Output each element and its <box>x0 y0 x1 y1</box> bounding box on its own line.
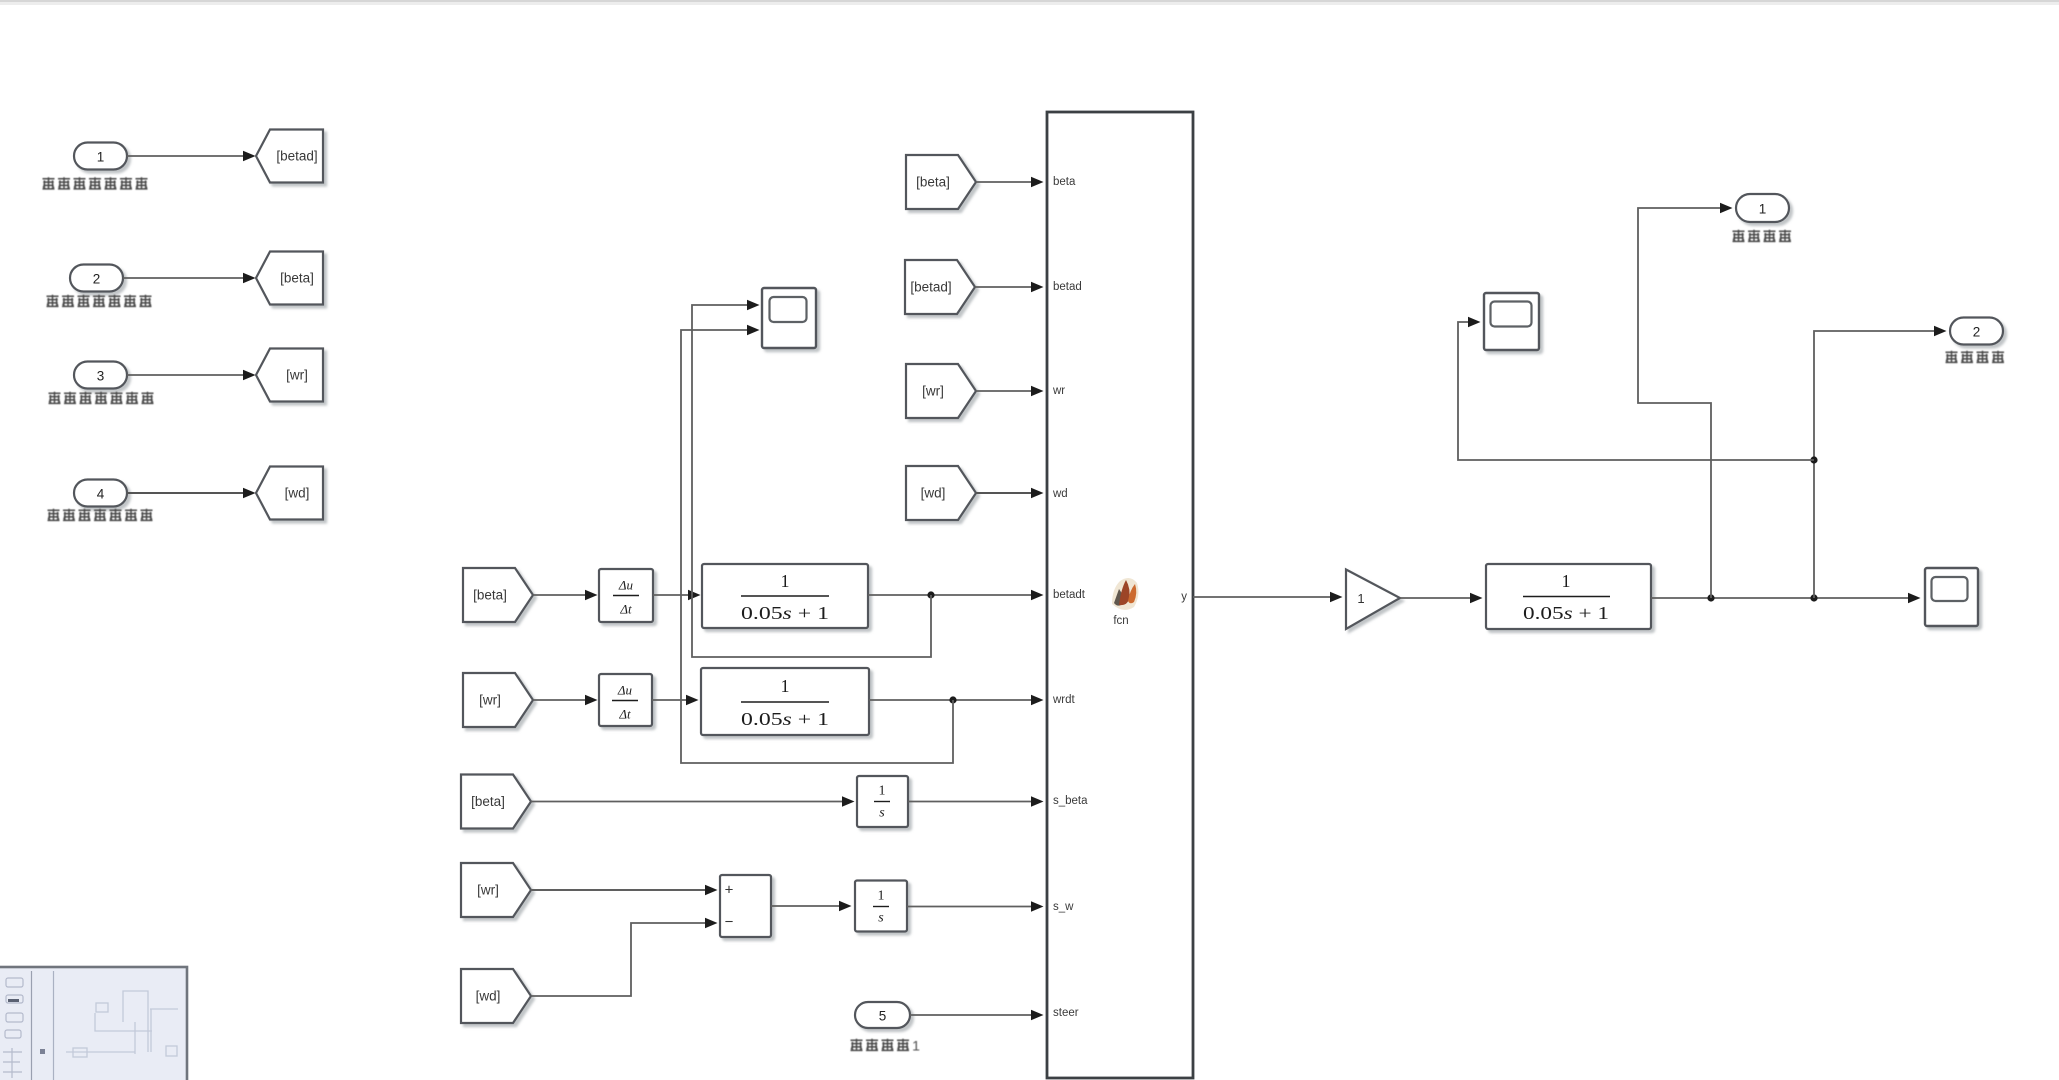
from [betad] to fcn betad <box>905 260 975 314</box>
from [wr] to sum <box>461 863 531 917</box>
wire gain to tf3 <box>1400 593 1483 603</box>
wire tf2 junction to scope input2 <box>681 325 953 763</box>
goto [wr] <box>256 349 323 402</box>
svg-text:Δu: Δu <box>618 578 634 593</box>
outport 2 <box>1950 318 2003 345</box>
goto [betad] <box>256 130 323 183</box>
scope middle (2 inputs) <box>762 288 816 348</box>
wire junction B to outport 2 <box>1814 326 1947 598</box>
inport 3 <box>74 362 127 389</box>
wire integrator1 to fcn s_beta <box>908 796 1044 806</box>
svg-text:2: 2 <box>93 272 101 287</box>
wire in4 to goto wd <box>127 488 256 498</box>
derivative block 1 <box>599 569 653 622</box>
from [wr] chain wrdt <box>463 673 533 727</box>
wire integrator2 to fcn s_w <box>907 901 1044 911</box>
svg-text:[wd]: [wd] <box>921 486 946 501</box>
wire junction to scope2 <box>1458 317 1814 460</box>
from [wr] to fcn wr <box>906 364 976 418</box>
svg-text:+: + <box>725 882 734 899</box>
svg-text:[betad]: [betad] <box>276 149 317 164</box>
svg-text:fcn: fcn <box>1113 615 1128 627</box>
from [wd] to fcn wd <box>906 466 976 520</box>
label 理想横摆角速度 <box>48 509 153 521</box>
wire in1 to goto betad <box>127 151 256 161</box>
svg-text:1: 1 <box>781 676 790 696</box>
label 前轮转角 <box>1733 230 1792 242</box>
svg-text:[wd]: [wd] <box>285 486 310 501</box>
wire from-wd3 to fcn <box>976 488 1044 498</box>
svg-text:y: y <box>1181 591 1187 603</box>
wire from-wr3 to fcn <box>976 386 1044 396</box>
junction on tf2 output <box>949 696 956 703</box>
wire derivative2 to tf2 <box>652 695 699 705</box>
svg-text:[beta]: [beta] <box>471 794 505 809</box>
inport 4 <box>74 480 127 507</box>
wire tf1 to fcn betadt <box>868 590 1044 600</box>
sum block <box>720 875 771 937</box>
junction tf3 output A <box>1707 594 1714 601</box>
MATLAB logo <box>1112 578 1138 610</box>
svg-text:s_beta: s_beta <box>1053 795 1088 807</box>
svg-text:[wr]: [wr] <box>479 693 501 708</box>
wire in3 to goto wr <box>127 370 256 380</box>
wire sum to integrator2 <box>771 901 852 911</box>
svg-text:[beta]: [beta] <box>916 175 950 190</box>
outport 1 <box>1736 194 1789 222</box>
svg-text:1: 1 <box>912 1038 920 1054</box>
MATLAB Function block fcn <box>1047 112 1193 1078</box>
gain 1 <box>1346 570 1400 630</box>
wire tf3 to scope right <box>1651 593 1921 603</box>
wire from-wr2 to sum plus input <box>531 885 718 895</box>
svg-text:[wr]: [wr] <box>286 368 308 383</box>
svg-text:1: 1 <box>1759 202 1767 217</box>
top edge line <box>0 0 2059 2</box>
transfer fcn 1/(0.05s+1) #3 <box>1486 564 1651 629</box>
wire from-beta2 to integrator1 <box>531 796 855 806</box>
wire tf2 to fcn wrdt <box>869 695 1044 705</box>
wire derivative1 to tf1 <box>653 590 701 600</box>
svg-text:s: s <box>878 911 884 926</box>
svg-text:Δu: Δu <box>617 683 633 698</box>
overlay preview window bottom-left <box>0 967 187 1080</box>
wire fcn y to gain <box>1193 592 1343 602</box>
label 理想质心侧偏角 <box>43 177 148 189</box>
svg-text:steer: steer <box>1053 1007 1079 1019</box>
svg-text:[beta]: [beta] <box>473 588 507 603</box>
label 实际质心侧偏角 <box>47 295 152 307</box>
svg-text:1: 1 <box>879 784 886 799</box>
svg-text:s_w: s_w <box>1053 901 1074 913</box>
transfer fcn 1/(0.05s+1) #1 <box>702 564 868 628</box>
junction tf3 output B <box>1810 594 1817 601</box>
svg-text:wd: wd <box>1052 488 1068 500</box>
label 后轮转角 <box>1946 351 2005 363</box>
integrator 1/s #2 <box>855 881 907 932</box>
svg-text:1: 1 <box>878 889 885 904</box>
from [beta] chain betadt <box>463 568 533 622</box>
svg-text:1: 1 <box>781 571 790 591</box>
svg-text:[wr]: [wr] <box>922 384 944 399</box>
scope bottom right <box>1925 568 1978 626</box>
inport 1 <box>74 143 127 170</box>
transfer fcn 1/(0.05s+1) #2 <box>701 668 869 735</box>
inport 2 <box>70 265 123 292</box>
svg-text:0.05s + 1: 0.05s + 1 <box>741 603 829 623</box>
goto [wd] <box>256 467 323 520</box>
junction scope2 tap <box>1810 456 1817 463</box>
svg-text:5: 5 <box>879 1009 887 1024</box>
wire from-wd2 to sum minus input <box>531 918 718 996</box>
svg-text:0.05s + 1: 0.05s + 1 <box>1523 603 1609 623</box>
wire in2 to goto beta <box>123 273 256 283</box>
wire from-beta to derivative1 <box>533 590 598 600</box>
integrator 1/s #1 <box>857 776 908 827</box>
svg-text:beta: beta <box>1053 176 1076 188</box>
derivative block 2 <box>599 674 652 726</box>
from [beta] chain s_beta <box>461 775 531 829</box>
svg-text:Δt: Δt <box>618 707 631 722</box>
svg-text:1: 1 <box>1357 591 1364 606</box>
wire junction A to outport 1 <box>1638 203 1733 598</box>
from [wd] lower <box>461 969 531 1023</box>
junction on tf1 output <box>927 591 934 598</box>
svg-text:Δt: Δt <box>619 602 632 617</box>
svg-text:1: 1 <box>97 150 105 165</box>
svg-text:[wd]: [wd] <box>476 989 501 1004</box>
goto [beta] <box>256 252 323 305</box>
svg-text:3: 3 <box>97 369 105 384</box>
svg-text:[beta]: [beta] <box>280 271 314 286</box>
svg-text:betadt: betadt <box>1053 589 1086 601</box>
from [beta] to fcn beta <box>906 155 976 209</box>
svg-text:[betad]: [betad] <box>910 280 951 295</box>
svg-text:−: − <box>725 914 734 931</box>
wire from-betad2 to fcn <box>975 282 1044 292</box>
label 实际横摆角速度 <box>49 392 154 404</box>
inport 5 <box>855 1002 910 1028</box>
svg-text:s: s <box>879 806 885 821</box>
label 前轮转角1 <box>851 1038 921 1054</box>
svg-text:0.05s + 1: 0.05s + 1 <box>741 709 829 729</box>
wire from-beta3 to fcn <box>976 177 1044 187</box>
svg-text:wrdt: wrdt <box>1052 694 1076 706</box>
wire in5 to fcn steer <box>910 1010 1044 1020</box>
svg-text:[wr]: [wr] <box>477 883 499 898</box>
svg-text:wr: wr <box>1052 385 1065 397</box>
svg-text:1: 1 <box>1562 571 1571 591</box>
scope right upper <box>1484 293 1539 350</box>
svg-text:2: 2 <box>1973 325 1981 340</box>
wire tf1 junction to scope input1 <box>692 300 931 657</box>
wire from-wr to derivative2 <box>533 695 598 705</box>
svg-text:4: 4 <box>97 487 105 502</box>
svg-text:betad: betad <box>1053 281 1082 293</box>
